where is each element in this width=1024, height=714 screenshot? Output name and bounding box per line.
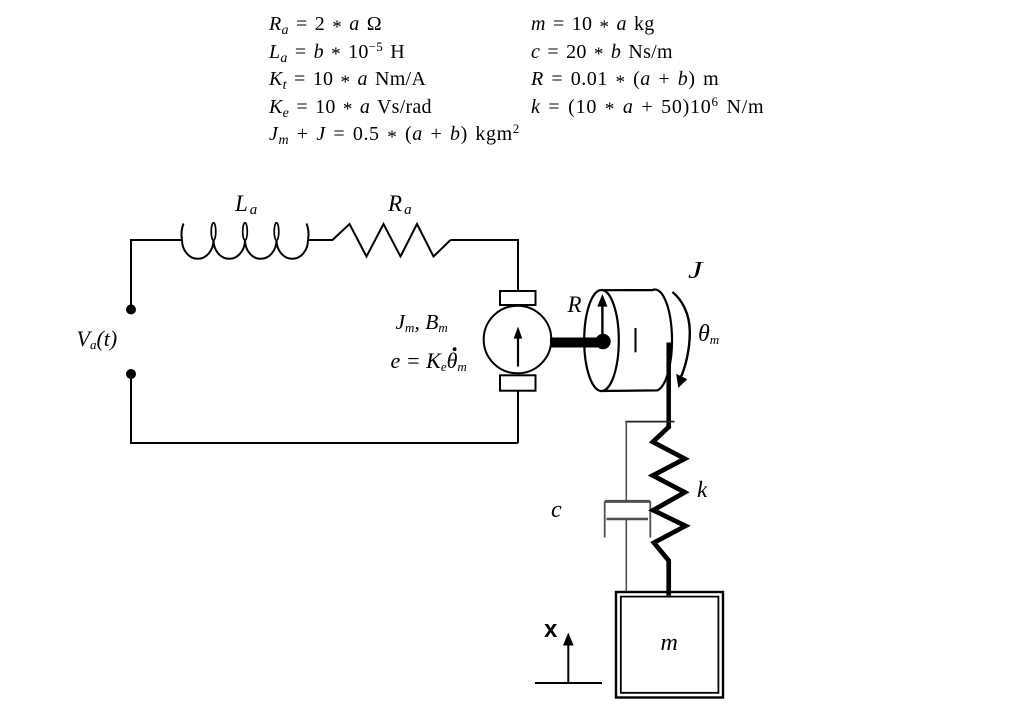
- damper cylinder left wall: [604, 501, 606, 537]
- motor shaft: [550, 338, 599, 348]
- equation column left: [269, 11, 520, 149]
- terminal node lower dot: [126, 369, 136, 379]
- wire right vertical lower: [517, 391, 519, 443]
- label x (displacement axis): [544, 616, 557, 644]
- label c (damper): [551, 497, 562, 524]
- damper top connector: [625, 421, 674, 423]
- label theta m: [698, 321, 719, 348]
- drum surface mark: [635, 328, 637, 352]
- rope from drum to spring: [666, 343, 671, 427]
- x axis arrow: [563, 633, 574, 684]
- drum left face ellipse: [584, 290, 619, 391]
- label Va(t): [77, 326, 118, 352]
- label R (drum radius): [568, 292, 582, 318]
- damper rod upper: [625, 421, 627, 501]
- damper rod lower: [625, 519, 627, 592]
- drum body: [602, 290, 672, 391]
- equation column right: [531, 11, 764, 121]
- shaft end hub dot: [595, 334, 610, 349]
- spring k: [653, 424, 686, 596]
- terminal node upper dot: [126, 305, 136, 315]
- motor arrow: [514, 327, 523, 367]
- theta overdot of e label: [453, 347, 457, 351]
- x axis baseline: [535, 682, 602, 684]
- wire between inductor and resistor: [308, 239, 333, 241]
- mass m outer box: [616, 592, 723, 698]
- wire bottom horizontal: [130, 442, 518, 444]
- inductor La: [181, 223, 308, 259]
- wire left vertical lower: [130, 374, 132, 443]
- label Jm, Bm: [396, 310, 448, 335]
- wire resistor to top-right corner: [451, 239, 519, 241]
- label e = Ke thetadot m: [391, 348, 467, 374]
- label J (drum inertia): [688, 258, 702, 285]
- rotation arrow theta m: [673, 292, 690, 388]
- label La: [235, 191, 257, 217]
- wire right vertical upper: [517, 239, 519, 292]
- mass m inner box: [621, 597, 719, 693]
- motor body circle: [484, 306, 552, 374]
- label Ra: [388, 191, 412, 217]
- damper cylinder cap: [605, 500, 651, 503]
- resistor Ra: [333, 224, 451, 257]
- damper piston plate: [607, 518, 649, 521]
- radius arrow R: [597, 294, 607, 342]
- label m (mass): [661, 630, 678, 657]
- label k (spring): [697, 477, 707, 503]
- wire top-left horizontal: [131, 239, 181, 241]
- damper cylinder right wall: [649, 501, 651, 537]
- motor brush bottom: [500, 375, 536, 390]
- motor brush top: [500, 291, 536, 305]
- wire left vertical upper: [130, 239, 132, 309]
